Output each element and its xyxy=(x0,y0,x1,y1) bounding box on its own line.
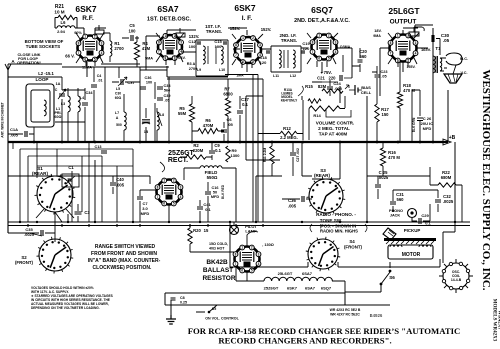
svg-text:TRANS.: TRANS. xyxy=(206,29,222,34)
svg-text:R15: R15 xyxy=(305,84,313,89)
svg-text:25Z6GT: 25Z6GT xyxy=(264,286,279,291)
field coil 550 ohm xyxy=(200,166,222,168)
svg-text:JACK: JACK xyxy=(390,214,401,218)
svg-text:VOLUME CONTR.: VOLUME CONTR. xyxy=(316,121,355,126)
svg-text:8: 8 xyxy=(235,43,237,47)
svg-text:S4: S4 xyxy=(349,239,355,244)
svg-text:3: 3 xyxy=(180,41,182,45)
svg-text:1300: 1300 xyxy=(231,153,241,158)
svg-text:120: 120 xyxy=(260,60,267,65)
svg-text:0.1: 0.1 xyxy=(215,148,221,153)
svg-text:0.1: 0.1 xyxy=(205,207,211,212)
svg-text:MFD: MFD xyxy=(423,126,432,131)
svg-text:100: 100 xyxy=(215,44,222,49)
svg-text:PICKUP: PICKUP xyxy=(404,228,421,233)
svg-text:10 M: 10 M xyxy=(54,10,64,15)
svg-text:18V.: 18V. xyxy=(374,29,381,33)
svg-text:60Ω: 60Ω xyxy=(115,96,122,100)
svg-text:CELL: CELL xyxy=(361,90,372,95)
svg-text:LOOP: LOOP xyxy=(35,77,48,82)
svg-text:MFD: MFD xyxy=(211,195,219,199)
svg-text:8: 8 xyxy=(78,41,80,45)
svg-text:6SK7: 6SK7 xyxy=(287,286,298,291)
svg-text:1: 1 xyxy=(242,36,244,40)
svg-text:BK42B: BK42B xyxy=(206,259,228,266)
svg-text:L12: L12 xyxy=(290,74,296,78)
tube U5 25L6GT socket xyxy=(390,35,417,62)
svg-text:C21: C21 xyxy=(317,76,325,81)
svg-text:C1A: C1A xyxy=(10,127,18,132)
svg-text:.05: .05 xyxy=(381,75,386,79)
svg-text:.05: .05 xyxy=(443,38,450,43)
svg-text:OUTPUT: OUTPUT xyxy=(390,19,417,26)
svg-text:L8: L8 xyxy=(160,113,164,117)
svg-text:560: 560 xyxy=(360,54,368,59)
svg-text:2.94: 2.94 xyxy=(57,29,66,34)
svg-text:+B: +B xyxy=(449,135,456,141)
svg-text:8: 8 xyxy=(312,40,314,44)
capacitor C27 xyxy=(290,153,296,155)
tube U3 pin stubs xyxy=(232,34,263,68)
resistor R11 2.2M xyxy=(270,146,274,164)
svg-text:15: 15 xyxy=(204,228,209,233)
svg-text:C16: C16 xyxy=(212,186,219,190)
svg-text:220: 220 xyxy=(329,76,337,81)
svg-text:.01: .01 xyxy=(98,79,103,83)
svg-text:2: 2 xyxy=(252,36,254,40)
svg-text:C36: C36 xyxy=(145,76,152,80)
svg-text:CLOCKWISE) POSITION.: CLOCKWISE) POSITION. xyxy=(93,265,153,271)
motor hatched base xyxy=(384,238,436,241)
svg-text:TUBE SOCKETS: TUBE SOCKETS xyxy=(26,44,60,49)
svg-text:C27 .002: C27 .002 xyxy=(296,148,300,162)
tube U4 pin stubs xyxy=(307,33,338,67)
svg-text:MFD: MFD xyxy=(141,211,150,216)
svg-text:2700: 2700 xyxy=(189,67,197,71)
svg-text:1: 1 xyxy=(165,34,167,38)
svg-text:RADIO - PHONO. -: RADIO - PHONO. - xyxy=(316,212,356,217)
svg-text:MODELS WR42X3: MODELS WR42X3 xyxy=(492,299,497,342)
svg-text:3: 3 xyxy=(180,185,182,189)
svg-text:0.25: 0.25 xyxy=(180,301,187,305)
tube U4 6SQ7 socket xyxy=(312,35,337,60)
svg-text:C3: C3 xyxy=(84,210,90,215)
svg-text:7: 7 xyxy=(235,53,237,57)
svg-text:C29: C29 xyxy=(421,213,429,218)
svg-text:2: 2 xyxy=(328,34,330,38)
coil L8 osc xyxy=(157,112,159,130)
svg-text:3: 3 xyxy=(259,43,261,47)
svg-text:, 130Ω: , 130Ω xyxy=(262,243,274,247)
svg-text:RESISTOR: RESISTOR xyxy=(202,275,235,282)
tube U2 6SA7 socket xyxy=(158,35,182,59)
svg-text:6SK7: 6SK7 xyxy=(234,3,256,13)
svg-text:6SA7: 6SA7 xyxy=(302,271,313,276)
svg-text:6SA7: 6SA7 xyxy=(157,4,179,14)
svg-text:6SK7: 6SK7 xyxy=(75,4,97,14)
svg-text:KE47ONLY: KE47ONLY xyxy=(281,99,298,103)
band switch wiring xyxy=(13,142,133,222)
svg-text:3: 3 xyxy=(415,41,417,45)
svg-text:R.F.: R.F. xyxy=(82,15,94,22)
svg-text:.005: .005 xyxy=(288,204,297,209)
svg-text:WR 42X7 RC 5E2C: WR 42X7 RC 5E2C xyxy=(330,313,360,317)
svg-text:8: 8 xyxy=(157,185,159,189)
svg-text:2.2 MEG.: 2.2 MEG. xyxy=(280,135,298,140)
svg-text:8: 8 xyxy=(235,252,237,256)
coil L4 xyxy=(78,96,80,112)
svg-text:.0025: .0025 xyxy=(443,199,454,204)
detector verticals xyxy=(167,75,268,223)
svg-text:4: 4 xyxy=(180,195,182,199)
svg-text:L3: L3 xyxy=(61,102,65,106)
svg-text:5: 5 xyxy=(328,57,330,61)
svg-text:L2 -15.1: L2 -15.1 xyxy=(38,71,54,76)
svg-text:9MA: 9MA xyxy=(373,34,381,38)
svg-text:680M: 680M xyxy=(441,175,452,180)
svg-text:WESTINGHOUSE ELEC. SUPPLY C: WESTINGHOUSE ELEC. SUPPLY CO., INC. xyxy=(480,69,492,290)
svg-text:T1: T1 xyxy=(435,46,441,51)
svg-text:4: 4 xyxy=(415,51,417,55)
svg-text:2: 2 xyxy=(173,179,175,183)
svg-text:1ST. DET.B.OSC.: 1ST. DET.B.OSC. xyxy=(147,17,192,23)
svg-text:IN"A" BAND (MAX. COUNTER-: IN"A" BAND (MAX. COUNTER- xyxy=(88,258,161,264)
svg-text:470 M: 470 M xyxy=(388,155,400,160)
volume control R14 xyxy=(309,106,340,111)
svg-text:100: 100 xyxy=(129,29,137,34)
svg-text:C13: C13 xyxy=(95,145,102,149)
grid cap U1 xyxy=(95,25,104,34)
pilot lamp xyxy=(230,226,239,235)
svg-text:C5: C5 xyxy=(129,23,135,28)
grid cap U2 xyxy=(176,28,185,37)
svg-text:55M: 55M xyxy=(178,111,187,116)
svg-text:RECORD CHANGERS AND RECORDERS": RECORD CHANGERS AND RECORDERS". xyxy=(218,336,391,346)
svg-text:FOR RCA RP-158 RECORD CHANGER: FOR RCA RP-158 RECORD CHANGER SEE RIDER’… xyxy=(188,326,461,336)
svg-text:6SQ7: 6SQ7 xyxy=(311,5,333,15)
svg-text:90%: 90% xyxy=(74,31,82,35)
svg-text:7: 7 xyxy=(157,195,159,199)
oscillator coil xyxy=(443,263,469,289)
antenna lead-in wire with arrow A xyxy=(7,70,9,233)
bus right verticals xyxy=(433,28,455,222)
tube U1 6SK7 socket xyxy=(78,36,103,61)
svg-text:R20: R20 xyxy=(193,228,201,233)
svg-text:BALLAST: BALLAST xyxy=(203,267,233,274)
svg-text:MOTOR: MOTOR xyxy=(402,252,421,258)
svg-text:7: 7 xyxy=(158,50,160,54)
svg-text:7: 7 xyxy=(235,262,237,266)
svg-text:WR 42X3 RC 5E2 B: WR 42X3 RC 5E2 B xyxy=(330,308,361,312)
svg-text:R12: R12 xyxy=(283,126,291,131)
resistor R4 xyxy=(134,42,139,60)
tube U5 pin stubs xyxy=(388,33,419,67)
svg-text:BLK RED: BLK RED xyxy=(221,184,225,199)
svg-text:S6: S6 xyxy=(389,275,395,280)
resistor R5 xyxy=(189,104,194,122)
tube U6 25Z6GT socket xyxy=(157,180,182,205)
coil L7 osc xyxy=(124,112,126,130)
svg-text:B4926: B4926 xyxy=(370,313,383,318)
svg-text:8: 8 xyxy=(158,41,160,45)
svg-text:7: 7 xyxy=(312,50,314,54)
svg-text:3: 3 xyxy=(258,252,260,256)
svg-text:6: 6 xyxy=(241,269,243,273)
speaker xyxy=(446,53,462,65)
svg-text:1: 1 xyxy=(163,179,165,183)
svg-text:.005: .005 xyxy=(10,133,19,138)
svg-text:3: 3 xyxy=(101,41,103,45)
ballast tube socket xyxy=(235,247,260,272)
svg-text:LAMP: LAMP xyxy=(245,229,257,234)
svg-text:C34: C34 xyxy=(86,91,94,95)
svg-text:RADIO MIN. HIGHS: RADIO MIN. HIGHS xyxy=(320,229,358,234)
svg-text:1A: 1A xyxy=(56,82,61,86)
tube U1 pin stubs xyxy=(76,33,104,66)
lower twin bus wires xyxy=(8,222,470,226)
svg-text:6: 6 xyxy=(163,202,165,206)
motor xyxy=(388,245,433,259)
svg-text:V.C.: V.C. xyxy=(460,71,467,75)
svg-text:7: 7 xyxy=(78,51,80,55)
svg-text:BLK GRN: BLK GRN xyxy=(412,117,416,132)
tube U3 6SK7 socket xyxy=(235,37,261,63)
svg-text:50: 50 xyxy=(213,191,217,195)
svg-text:L11: L11 xyxy=(273,74,279,78)
wire rf section verticals xyxy=(62,77,85,142)
svg-text:1: 1 xyxy=(241,246,243,250)
svg-text:2 MEG. TOTAL: 2 MEG. TOTAL xyxy=(318,126,350,131)
svg-text:C37: C37 xyxy=(127,80,135,85)
svg-text:4: 4 xyxy=(335,50,337,54)
svg-text:2: 2 xyxy=(174,34,176,38)
svg-text:R3 A: R3 A xyxy=(187,62,196,66)
padder capacitor xyxy=(142,120,150,122)
svg-text:14-4-B: 14-4-B xyxy=(451,278,462,282)
svg-text:0.1: 0.1 xyxy=(242,102,248,107)
tube U2 pin stubs xyxy=(156,33,184,65)
svg-text:RANGE SWITCH VIEWED: RANGE SWITCH VIEWED xyxy=(95,244,156,250)
svg-text:25L6GT: 25L6GT xyxy=(278,271,293,276)
svg-text:25Z6GT: 25Z6GT xyxy=(168,150,194,157)
svg-text:66 V.: 66 V. xyxy=(65,54,74,59)
svg-text:DEPENDING ON THE VOLTMETER: DEPENDING ON THE VOLTMETER LOADING. xyxy=(31,306,100,310)
svg-text:WR42X7: WR42X7 xyxy=(497,310,500,330)
lower long wires xyxy=(165,267,440,305)
svg-text:8: 8 xyxy=(390,41,392,45)
ground symbol xyxy=(166,315,176,324)
svg-text:82M: 82M xyxy=(318,84,327,89)
svg-text:S5: S5 xyxy=(212,307,216,311)
svg-text:120: 120 xyxy=(303,46,310,51)
svg-text:L10: L10 xyxy=(219,68,225,72)
svg-text:564: 564 xyxy=(164,89,171,93)
svg-text:C23: C23 xyxy=(381,70,388,74)
svg-text:L9: L9 xyxy=(197,68,201,72)
svg-text:15Ω COLD,: 15Ω COLD, xyxy=(209,242,228,246)
svg-text:5: 5 xyxy=(173,202,175,206)
svg-text:.05: .05 xyxy=(227,122,233,127)
svg-text:(FRONT): (FRONT) xyxy=(15,260,34,265)
svg-text:L4: L4 xyxy=(80,96,84,100)
svg-text:L6: L6 xyxy=(61,20,67,25)
svg-text:3: 3 xyxy=(335,40,337,44)
svg-text:100: 100 xyxy=(146,81,152,85)
svg-text:6SA7: 6SA7 xyxy=(305,286,316,291)
svg-text:2700: 2700 xyxy=(114,46,124,51)
lower area wires xyxy=(8,96,455,305)
bus junction dots xyxy=(33,141,36,144)
svg-text:TAP AT 400M: TAP AT 400M xyxy=(319,132,348,137)
svg-text:ON VOL. CONTROL: ON VOL. CONTROL xyxy=(205,317,239,321)
svg-text:2: 2 xyxy=(251,246,253,250)
svg-text:ANT. WIRE IN CABINET: ANT. WIRE IN CABINET xyxy=(1,102,5,137)
svg-text:C: C xyxy=(55,88,58,92)
svg-text:PHONO: PHONO xyxy=(389,209,403,213)
trimmer C2 xyxy=(59,94,65,96)
svg-text:500: 500 xyxy=(116,123,122,127)
svg-text:TONE SW.: TONE SW. xyxy=(320,218,342,223)
svg-text:220M: 220M xyxy=(193,148,204,153)
svg-text:550Ω: 550Ω xyxy=(207,175,218,180)
resistor R7 xyxy=(225,98,230,116)
svg-text:RECT.: RECT. xyxy=(168,157,188,164)
svg-text:I. F.: I. F. xyxy=(242,15,253,22)
wire S1 to S2 xyxy=(30,209,74,242)
main B+ bus wire xyxy=(8,141,448,143)
svg-text:C8: C8 xyxy=(180,296,185,300)
svg-text:FROM FRONT AND SHOWN: FROM FRONT AND SHOWN xyxy=(91,251,157,257)
svg-text:150: 150 xyxy=(382,112,390,117)
svg-text:R14: R14 xyxy=(313,113,321,118)
middle horizontal wires xyxy=(8,62,360,160)
svg-text:40Ω HOT: 40Ω HOT xyxy=(209,247,225,251)
svg-text:152V.: 152V. xyxy=(261,27,272,32)
svg-text:L7: L7 xyxy=(115,111,119,115)
svg-text:(REAR): (REAR) xyxy=(32,171,49,176)
svg-text:6SQ7: 6SQ7 xyxy=(321,286,332,291)
svg-text:C30: C30 xyxy=(115,92,121,96)
svg-text:4: 4 xyxy=(101,51,103,55)
svg-text:1MA: 1MA xyxy=(236,74,244,78)
svg-text:60Ω: 60Ω xyxy=(55,115,62,119)
svg-text:64V.: 64V. xyxy=(178,56,185,60)
svg-text:M.C.: M.C. xyxy=(460,57,468,61)
svg-text:6: 6 xyxy=(318,57,320,61)
grid cap U5 xyxy=(409,27,424,36)
svg-text:155V.: 155V. xyxy=(406,65,415,69)
svg-text:C4: C4 xyxy=(97,74,102,78)
svg-text:100: 100 xyxy=(189,44,196,49)
mid verticals xyxy=(94,67,169,142)
svg-text:2ND. DET.,A.F.&A.V.C.: 2ND. DET.,A.F.&A.V.C. xyxy=(294,18,350,24)
svg-text:470 M: 470 M xyxy=(403,88,415,93)
coil L3 xyxy=(68,96,70,112)
svg-text:A: A xyxy=(116,116,119,120)
svg-text:(FRONT): (FRONT) xyxy=(344,245,363,250)
svg-text:25L6GT: 25L6GT xyxy=(388,6,420,16)
svg-text:TRANS.: TRANS. xyxy=(281,38,297,43)
svg-text:7: 7 xyxy=(390,51,392,55)
svg-text:1: 1 xyxy=(318,34,320,38)
svg-text:5: 5 xyxy=(251,269,253,273)
top interconnect wires xyxy=(8,28,428,96)
svg-text:152V.: 152V. xyxy=(230,26,241,31)
svg-text:4: 4 xyxy=(258,262,260,266)
svg-text:L5: L5 xyxy=(116,87,120,91)
svg-text:560: 560 xyxy=(397,197,405,202)
resistor R1 xyxy=(110,41,112,56)
svg-text:1: 1 xyxy=(397,34,399,38)
svg-text:.005: .005 xyxy=(334,86,343,91)
svg-text:1: 1 xyxy=(84,35,86,39)
svg-text:470M: 470M xyxy=(203,123,214,128)
